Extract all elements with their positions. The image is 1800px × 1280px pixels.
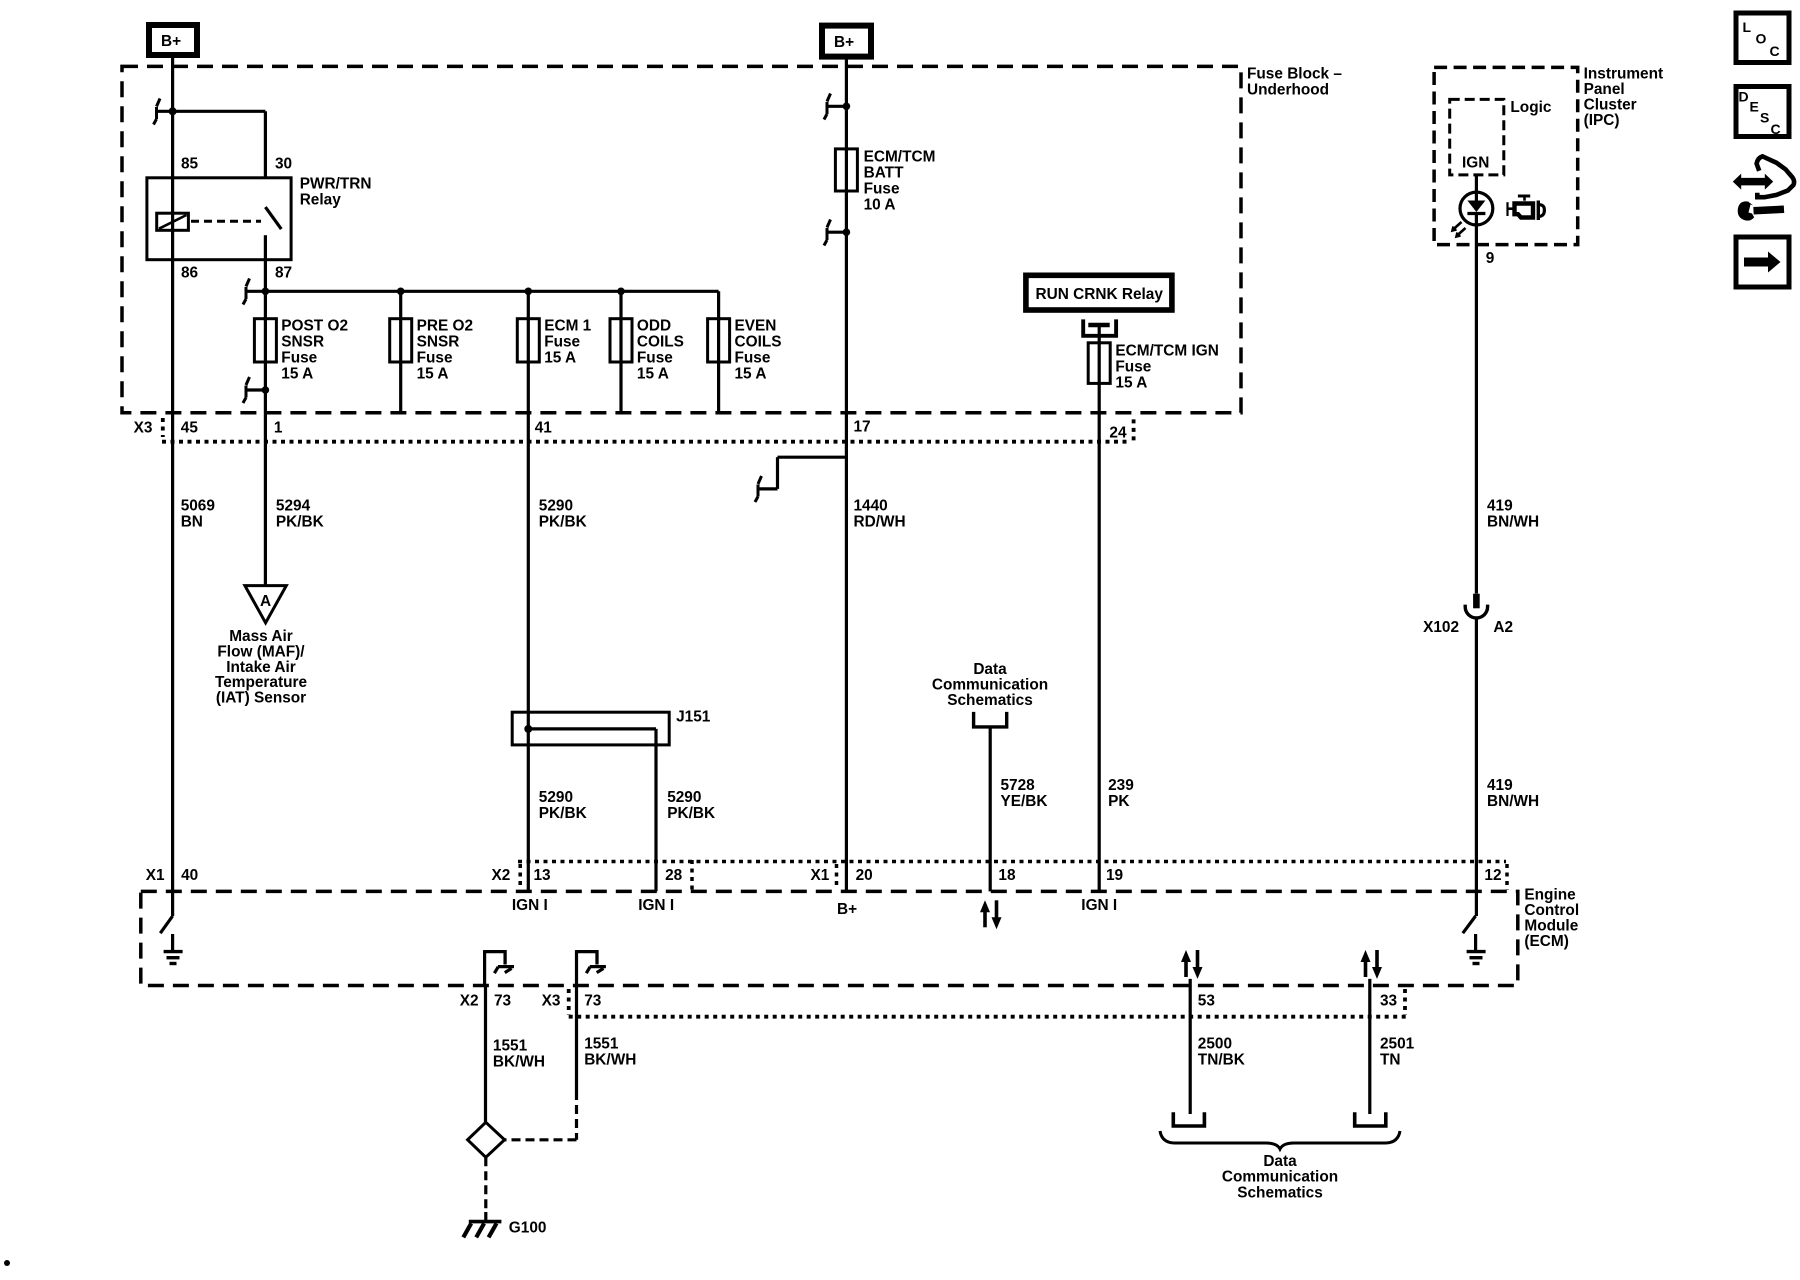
margin icon wiring route arrows bbox=[1733, 156, 1794, 220]
off-page cup connector pin 33 bbox=[1355, 1112, 1386, 1126]
pin 28 bbox=[665, 867, 683, 884]
fuse ECM/TCM BATT 10A bbox=[835, 149, 935, 214]
wire ckt 1551 from X2-73 to splice bbox=[484, 986, 487, 1123]
indicator LED bbox=[1453, 192, 1493, 236]
svg-text:419: 419 bbox=[1487, 777, 1513, 794]
svg-text:RD/WH: RD/WH bbox=[854, 513, 906, 530]
label A2 bbox=[1493, 619, 1513, 636]
svg-text:15 A: 15 A bbox=[1115, 375, 1147, 392]
svg-text:13: 13 bbox=[534, 867, 551, 884]
wire: B+ left feed down to ECM pin 40 (ckt 5069) bbox=[171, 58, 174, 916]
svg-text:PWR/TRN: PWR/TRN bbox=[300, 175, 372, 192]
bidirectional data arrows above pin 33 bbox=[1361, 950, 1383, 979]
svg-text:5290: 5290 bbox=[539, 789, 573, 806]
instrument panel cluster IPC dashed box bbox=[1434, 67, 1578, 244]
pin 13 bbox=[534, 867, 551, 884]
svg-text:Fuse: Fuse bbox=[281, 350, 317, 367]
svg-text:1551: 1551 bbox=[493, 1037, 528, 1054]
wire drop POST O2 fuse down to MAF sensor bbox=[264, 291, 267, 585]
svg-text:15 A: 15 A bbox=[735, 366, 767, 383]
svg-text:1440: 1440 bbox=[854, 497, 888, 514]
ECM internal switch blade pin 40 bbox=[160, 916, 172, 933]
svg-text:15 A: 15 A bbox=[637, 366, 669, 383]
svg-text:SNSR: SNSR bbox=[281, 334, 324, 351]
svg-text:C: C bbox=[1771, 121, 1781, 137]
svg-text:TN: TN bbox=[1380, 1051, 1401, 1068]
pin 1 bbox=[274, 420, 283, 437]
splice pack J151 bbox=[512, 709, 711, 745]
pin 33 bbox=[1380, 993, 1397, 1010]
wire label 5290 PK/BK (left below J151) bbox=[539, 789, 587, 822]
relay pin label 30 bbox=[275, 156, 292, 173]
svg-text:BK/WH: BK/WH bbox=[493, 1053, 545, 1070]
ground symbol inside ECM (left) bbox=[164, 934, 183, 964]
svg-text:1551: 1551 bbox=[584, 1035, 619, 1052]
wire drop ODD COILS fuse bbox=[619, 291, 622, 413]
svg-text:10 A: 10 A bbox=[864, 197, 896, 214]
label Logic bbox=[1510, 99, 1551, 116]
svg-text:Fuse: Fuse bbox=[864, 181, 900, 198]
svg-text:239: 239 bbox=[1108, 777, 1134, 794]
logic module dashed box bbox=[1450, 99, 1504, 174]
pin 73 (X2) bbox=[494, 993, 511, 1010]
label Fuse Block - Underhood bbox=[1247, 66, 1342, 99]
connector strip X2/X3 dotted line below ECM bbox=[569, 989, 1407, 1017]
svg-text:12: 12 bbox=[1484, 867, 1501, 884]
svg-text:Fuse: Fuse bbox=[735, 350, 771, 367]
svg-text:BN/WH: BN/WH bbox=[1487, 793, 1539, 810]
svg-text:40: 40 bbox=[181, 867, 198, 884]
wire label 239 PK bbox=[1108, 777, 1134, 810]
wire label 5728 YE/BK bbox=[1001, 777, 1048, 810]
svg-text:Panel: Panel bbox=[1584, 81, 1625, 98]
svg-text:TN/BK: TN/BK bbox=[1198, 1051, 1245, 1068]
svg-text:Fuse: Fuse bbox=[1115, 359, 1151, 376]
bidirectional data arrows above pin 53 bbox=[1181, 950, 1203, 979]
svg-text:53: 53 bbox=[1198, 993, 1215, 1010]
pin 53 bbox=[1198, 993, 1215, 1010]
label Mass Air Flow (MAF)/ Intake Air Temperature (IAT) Sensor bbox=[215, 628, 308, 706]
svg-text:Fuse: Fuse bbox=[637, 350, 673, 367]
svg-text:B+: B+ bbox=[834, 34, 854, 51]
svg-text:Module: Module bbox=[1524, 918, 1578, 935]
ground symbol inside ECM (right) bbox=[1467, 934, 1486, 964]
fuse ODD COILS 15A bbox=[610, 318, 684, 383]
svg-text:BN/WH: BN/WH bbox=[1487, 513, 1539, 530]
svg-text:5069: 5069 bbox=[181, 497, 215, 514]
fuse EVEN COILS 15A bbox=[708, 318, 782, 383]
wire stub to relay pin 30 bbox=[157, 111, 266, 178]
wire from J151 to ECM pin 13 bbox=[527, 729, 530, 892]
svg-text:PK/BK: PK/BK bbox=[667, 805, 715, 822]
relay actuation dashed link bbox=[191, 220, 261, 223]
connector strip X3 dotted line bbox=[162, 418, 1134, 442]
connector strip X1/X2 dotted line above ECM bbox=[518, 860, 1507, 890]
svg-text:SNSR: SNSR bbox=[417, 334, 460, 351]
svg-text:5290: 5290 bbox=[667, 789, 701, 806]
ECM internal switch blade pin 12 bbox=[1463, 916, 1476, 933]
fuse POST O2 SNSR 15A bbox=[254, 318, 348, 383]
wire label 1440 RD/WH bbox=[854, 497, 906, 530]
pin 41 bbox=[535, 420, 553, 437]
label G100 bbox=[509, 1220, 547, 1237]
svg-text:85: 85 bbox=[181, 156, 199, 173]
wire drop ECM1 fuse down to J151 bbox=[527, 291, 530, 729]
wire: B+ center feed (ckt 1440) down to ECM pin 20 bbox=[845, 60, 848, 892]
svg-text:73: 73 bbox=[584, 993, 601, 1010]
svg-text:Engine: Engine bbox=[1524, 887, 1576, 904]
svg-text:IGN I: IGN I bbox=[638, 897, 674, 914]
wire label 2501 TN bbox=[1380, 1035, 1415, 1068]
svg-text:PRE O2: PRE O2 bbox=[417, 318, 473, 335]
brace under data wires bbox=[1160, 1131, 1400, 1149]
power symbol B+ (center) bbox=[822, 26, 871, 57]
svg-text:IGN: IGN bbox=[1462, 155, 1489, 172]
svg-text:X3: X3 bbox=[134, 420, 153, 437]
svg-text:B+: B+ bbox=[161, 33, 181, 50]
fuse holder bracket under RUN CRNK relay bbox=[1083, 319, 1116, 335]
stub branch at pin 17 with clip terminal bbox=[755, 457, 846, 502]
svg-text:C: C bbox=[1770, 43, 1780, 59]
wire ckt 419 from LED down to X102 bbox=[1475, 214, 1478, 594]
svg-text:J151: J151 bbox=[676, 709, 711, 726]
svg-text:17: 17 bbox=[854, 419, 871, 436]
pin 73 (X3) bbox=[584, 993, 601, 1010]
svg-text:Instrument: Instrument bbox=[1584, 66, 1664, 83]
svg-text:(IAT) Sensor: (IAT) Sensor bbox=[216, 689, 306, 706]
off-page cup connector pin 53 bbox=[1173, 1112, 1204, 1126]
label Data Communication Schematics (upper) bbox=[932, 661, 1048, 709]
svg-text:B+: B+ bbox=[837, 901, 857, 918]
fuse PRE O2 SNSR 15A bbox=[390, 318, 473, 383]
svg-text:20: 20 bbox=[856, 867, 873, 884]
svg-text:PK/BK: PK/BK bbox=[539, 513, 587, 530]
pin 20 bbox=[856, 867, 873, 884]
svg-text:S: S bbox=[1760, 110, 1769, 126]
bus wire from relay pin 87 feeding fuses bbox=[246, 288, 719, 296]
connector label X1 (center) bbox=[811, 867, 830, 884]
svg-text:PK: PK bbox=[1108, 793, 1129, 810]
wire drop PRE O2 fuse bbox=[399, 291, 402, 413]
svg-text:Underhood: Underhood bbox=[1247, 82, 1329, 99]
label Engine Control Module (ECM) bbox=[1524, 887, 1579, 951]
label Data Communication Schematics (lower) bbox=[1222, 1153, 1338, 1201]
svg-text:E: E bbox=[1750, 99, 1759, 115]
label PWR/TRN Relay bbox=[300, 175, 372, 208]
inline connector X102 pin A2 bbox=[1465, 594, 1487, 618]
pin 24 bbox=[1109, 424, 1127, 441]
pin 18 bbox=[998, 867, 1016, 884]
net label IGN I (pin 28) bbox=[638, 897, 674, 914]
svg-text:33: 33 bbox=[1380, 993, 1397, 1010]
wire: RUN CRNK relay output (ckt 239) down to ECM pin 19 bbox=[1098, 325, 1101, 891]
svg-text:28: 28 bbox=[665, 867, 683, 884]
svg-text:X1: X1 bbox=[146, 867, 165, 884]
svg-text:15 A: 15 A bbox=[281, 366, 313, 383]
pin 9 label bbox=[1486, 250, 1495, 267]
wire ckt 2501 from pin 33 bbox=[1368, 979, 1371, 1114]
svg-text:87: 87 bbox=[275, 265, 292, 282]
svg-text:X2: X2 bbox=[460, 993, 479, 1010]
wire label 1551 BK/WH (right) bbox=[584, 1035, 636, 1068]
splice diamond bbox=[468, 1122, 505, 1157]
svg-text:5294: 5294 bbox=[276, 497, 311, 514]
dashed lead to ground G100 bbox=[484, 1157, 487, 1212]
junction node on B+ wire bbox=[169, 107, 177, 115]
wire label 419 BN/WH (lower) bbox=[1487, 777, 1539, 810]
ECM ground lead pin 73 (X2) with clip bbox=[485, 950, 514, 985]
fuse ECM 1 15A bbox=[517, 318, 591, 367]
margin icon forward arrow box bbox=[1736, 237, 1789, 287]
margin icon LOC box bbox=[1736, 13, 1789, 63]
svg-text:POST O2: POST O2 bbox=[281, 318, 348, 335]
svg-text:A2: A2 bbox=[1493, 619, 1513, 636]
fuse block underhood dashed box bbox=[122, 66, 1241, 412]
svg-text:D: D bbox=[1739, 89, 1749, 105]
svg-text:COILS: COILS bbox=[637, 334, 684, 351]
svg-text:1: 1 bbox=[274, 420, 283, 437]
svg-text:15 A: 15 A bbox=[417, 366, 449, 383]
svg-text:COILS: COILS bbox=[735, 334, 782, 351]
label IGN bbox=[1462, 155, 1489, 172]
svg-text:BN: BN bbox=[181, 513, 203, 530]
svg-text:Schematics: Schematics bbox=[947, 692, 1033, 709]
wire from logic IGN output bbox=[1475, 175, 1478, 201]
svg-text:ODD: ODD bbox=[637, 318, 671, 335]
svg-text:BK/WH: BK/WH bbox=[584, 1051, 636, 1068]
check engine icon bbox=[1508, 195, 1545, 221]
connector triangle A to MAF/IAT sensor bbox=[245, 586, 286, 623]
bidirectional data arrows at pin 18 bbox=[980, 900, 1002, 929]
relay PWR/TRN box bbox=[147, 178, 291, 260]
svg-text:Communication: Communication bbox=[1222, 1169, 1338, 1186]
svg-text:Fuse: Fuse bbox=[544, 334, 580, 351]
clip terminal below ECM/TCM BATT fuse bbox=[824, 220, 850, 246]
label X102 bbox=[1423, 619, 1459, 636]
svg-text:A: A bbox=[260, 593, 271, 610]
svg-text:Cluster: Cluster bbox=[1584, 97, 1637, 114]
wire label 5290 PK/BK bbox=[539, 497, 587, 530]
svg-text:X102: X102 bbox=[1423, 619, 1459, 636]
connector label X3 bbox=[134, 420, 153, 437]
svg-text:73: 73 bbox=[494, 993, 511, 1010]
svg-text:PK/BK: PK/BK bbox=[539, 805, 587, 822]
svg-text:Fuse: Fuse bbox=[417, 350, 453, 367]
svg-text:9: 9 bbox=[1486, 250, 1495, 267]
svg-text:L: L bbox=[1743, 19, 1752, 35]
svg-text:X2: X2 bbox=[492, 867, 511, 884]
clip terminal at top-left stub bbox=[154, 99, 161, 125]
net label IGN I (pin 19) bbox=[1081, 897, 1117, 914]
power symbol B+ (left) bbox=[149, 25, 197, 55]
wire drop EVEN COILS fuse bbox=[717, 291, 720, 413]
svg-text:PK/BK: PK/BK bbox=[276, 513, 324, 530]
pin 12 bbox=[1484, 867, 1501, 884]
relay switch blade bbox=[265, 207, 281, 291]
svg-text:ECM/TCM IGN: ECM/TCM IGN bbox=[1115, 343, 1218, 360]
ECM ground lead pin 73 (X3) with clip bbox=[577, 950, 606, 985]
svg-text:419: 419 bbox=[1487, 497, 1513, 514]
margin icon DESC box bbox=[1736, 87, 1789, 138]
wire ckt 5728 down to ECM pin 18 bbox=[989, 727, 992, 892]
svg-text:Fuse Block –: Fuse Block – bbox=[1247, 66, 1342, 83]
wire label 1551 BK/WH (left) bbox=[493, 1037, 545, 1070]
net label B+ (pin 20) bbox=[837, 901, 857, 918]
stray mark bottom-left bbox=[4, 1260, 10, 1266]
clip terminal above ECM/TCM BATT fuse bbox=[824, 94, 850, 120]
svg-text:YE/BK: YE/BK bbox=[1001, 793, 1048, 810]
ground G100 chassis symbol bbox=[463, 1212, 501, 1237]
svg-text:G100: G100 bbox=[509, 1220, 547, 1237]
svg-text:X3: X3 bbox=[542, 993, 561, 1010]
svg-text:2500: 2500 bbox=[1198, 1035, 1232, 1052]
connector label X1 (left) bbox=[146, 867, 165, 884]
svg-text:X1: X1 bbox=[811, 867, 830, 884]
svg-text:IGN I: IGN I bbox=[1081, 897, 1117, 914]
wire label 5069 BN bbox=[181, 497, 215, 530]
svg-text:Logic: Logic bbox=[1510, 99, 1551, 116]
off-page connector cup for data link bbox=[974, 712, 1007, 727]
svg-text:Relay: Relay bbox=[300, 191, 342, 208]
label Instrument Panel Cluster (IPC) bbox=[1584, 66, 1664, 130]
wire ckt 2500 from pin 53 bbox=[1189, 979, 1192, 1114]
pin 17 bbox=[854, 419, 871, 436]
svg-text:ECM/TCM: ECM/TCM bbox=[864, 149, 936, 166]
svg-text:15 A: 15 A bbox=[544, 350, 576, 367]
svg-text:(IPC): (IPC) bbox=[1584, 112, 1620, 129]
svg-text:5290: 5290 bbox=[539, 497, 573, 514]
svg-text:EVEN: EVEN bbox=[735, 318, 777, 335]
svg-text:Schematics: Schematics bbox=[1237, 1184, 1323, 1201]
connector label X2 (bottom) bbox=[460, 993, 479, 1010]
wire label 5290 PK/BK (right below J151) bbox=[667, 789, 715, 822]
svg-text:RUN CRNK Relay: RUN CRNK Relay bbox=[1036, 286, 1164, 303]
wire ckt 419 down to ECM pin 12 bbox=[1475, 618, 1478, 916]
svg-text:19: 19 bbox=[1106, 867, 1123, 884]
pin 40 bbox=[181, 867, 198, 884]
relay RUN CRNK label box bbox=[1026, 275, 1172, 310]
svg-text:O: O bbox=[1756, 31, 1767, 47]
wire from J151 to ECM pin 28 bbox=[654, 729, 657, 892]
svg-text:IGN I: IGN I bbox=[512, 897, 548, 914]
svg-text:5728: 5728 bbox=[1001, 777, 1036, 794]
relay coil bbox=[157, 213, 189, 230]
net label IGN I (pin 13) bbox=[512, 897, 548, 914]
wire ckt 1551 from X3-73 to splice (part dashed) bbox=[505, 986, 577, 1140]
pin 19 bbox=[1106, 867, 1123, 884]
svg-text:Data: Data bbox=[1263, 1153, 1297, 1170]
svg-text:24: 24 bbox=[1109, 424, 1127, 441]
svg-text:2501: 2501 bbox=[1380, 1035, 1415, 1052]
svg-text:41: 41 bbox=[535, 420, 553, 437]
relay pin label 87 bbox=[275, 265, 292, 282]
svg-text:30: 30 bbox=[275, 156, 292, 173]
clip terminal at bus left end bbox=[243, 279, 250, 305]
pin 45 bbox=[181, 420, 199, 437]
ECM dashed box bbox=[141, 891, 1518, 985]
clip terminal below POST O2 fuse bbox=[243, 377, 269, 403]
svg-text:(ECM): (ECM) bbox=[1524, 933, 1568, 950]
svg-text:ECM 1: ECM 1 bbox=[544, 318, 591, 335]
svg-text:45: 45 bbox=[181, 420, 199, 437]
connector label X3 (bottom) bbox=[542, 993, 561, 1010]
wire label 5294 PK/BK bbox=[276, 497, 324, 530]
svg-text:BATT: BATT bbox=[864, 165, 904, 182]
svg-text:Control: Control bbox=[1524, 902, 1579, 919]
wire label 419 BN/WH (upper) bbox=[1487, 497, 1539, 530]
fuse ECM/TCM IGN 15A bbox=[1088, 343, 1219, 392]
connector label X2 bbox=[492, 867, 511, 884]
relay pin label 85 bbox=[181, 156, 199, 173]
relay pin label 86 bbox=[181, 265, 198, 282]
svg-text:86: 86 bbox=[181, 265, 198, 282]
svg-text:18: 18 bbox=[998, 867, 1016, 884]
wire label 2500 TN/BK bbox=[1198, 1035, 1245, 1068]
